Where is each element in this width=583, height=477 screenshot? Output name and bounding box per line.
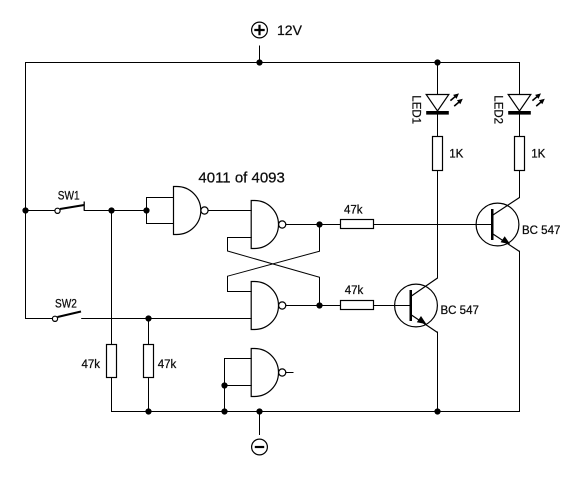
- resistor R5 47k: [107, 345, 117, 378]
- resistor R6 47k: [144, 345, 154, 378]
- NAND gate C (lower latch): [251, 282, 286, 330]
- wire gate D tie to rail: [224, 386, 226, 412]
- wire ground symbol stub: [259, 412, 261, 435]
- wire gate B output cross-couple: [228, 225, 320, 292]
- wire LED1 cathode to R: [437, 115, 439, 137]
- wire gate D output stub: [286, 372, 293, 374]
- NAND gate B (upper latch): [251, 201, 286, 249]
- wire gate B output row: [286, 224, 340, 226]
- junction gate B output: [316, 221, 322, 227]
- junction gate D tie: [221, 382, 227, 388]
- junction SW1/gate A tie: [143, 207, 149, 213]
- svg-text:SW1: SW1: [58, 190, 80, 202]
- NAND gate A (inverter-wired): [174, 187, 209, 235]
- wire R6 to ground rail: [148, 378, 150, 412]
- svg-text:BC 547: BC 547: [522, 225, 560, 237]
- junction left rail/SW1: [22, 207, 28, 213]
- wire gate A output to gate B: [208, 210, 251, 212]
- wire bottom ground rail: [112, 411, 520, 413]
- wire SW1 left: [26, 210, 55, 212]
- ground symbol: [252, 439, 268, 455]
- junction gate D/ground rail: [221, 408, 227, 414]
- wire R3 to Q2 base: [374, 224, 491, 226]
- wire Q1 emitter to rail: [437, 332, 439, 412]
- wire SW2 left: [26, 318, 53, 320]
- resistor R3 47k: [341, 220, 374, 229]
- wire LED1 branch drop: [437, 63, 439, 95]
- wire R4 to Q1 base: [374, 305, 410, 307]
- svg-text:4011 of 4093: 4011 of 4093: [198, 170, 284, 187]
- resistor R4 47k: [341, 301, 374, 310]
- LED1: [426, 93, 463, 114]
- svg-text:47k: 47k: [344, 205, 363, 217]
- wire left rail: [25, 63, 27, 319]
- junction supply/top rail: [256, 59, 262, 65]
- wire SW2 to gate C input: [82, 318, 252, 320]
- wire SW1 to gate A inputs: [84, 210, 146, 212]
- wire top supply rail: [26, 62, 520, 64]
- wire R to Q1 collector: [437, 171, 439, 279]
- junction gate C output: [316, 302, 322, 308]
- transistor Q2 BC547 (upper): [476, 198, 519, 252]
- junction LED1 branch/top rail: [434, 59, 440, 65]
- LED2: [508, 93, 545, 114]
- wire R to Q2 collector: [519, 171, 521, 198]
- wire LED2 cathode to R: [519, 115, 521, 137]
- wire R5 to ground rail: [111, 378, 113, 412]
- junction SW1/R5 tap: [108, 207, 114, 213]
- junction SW2/R6 tap: [145, 315, 151, 321]
- resistor R2 1K: [515, 137, 525, 171]
- resistor R1 1K: [433, 137, 443, 171]
- wire gate B input 2 cross-couple: [228, 238, 320, 306]
- wire gate C output row: [286, 305, 340, 307]
- NAND gate D (unused): [251, 349, 286, 397]
- svg-text:1K: 1K: [449, 149, 463, 161]
- junction Q1 emitter/rail: [434, 408, 440, 414]
- svg-text:12V: 12V: [277, 22, 303, 38]
- wire gate A input tie: [147, 198, 174, 224]
- svg-text:47k: 47k: [158, 359, 177, 371]
- wire 12V stub: [259, 46, 261, 63]
- svg-text:LED1: LED1: [410, 95, 422, 124]
- svg-text:1K: 1K: [531, 149, 545, 161]
- switch SW1: [55, 202, 84, 214]
- svg-text:47k: 47k: [82, 359, 101, 371]
- wire Q2 emitter to rail: [519, 251, 521, 411]
- transistor Q1 BC547 (lower): [395, 278, 438, 333]
- svg-text:BC 547: BC 547: [441, 305, 479, 317]
- svg-text:47k: 47k: [345, 285, 364, 297]
- svg-text:SW2: SW2: [55, 299, 77, 311]
- wire SW1 node to R5: [111, 211, 113, 345]
- wire LED2 branch drop: [519, 63, 521, 95]
- switch SW2: [52, 312, 81, 322]
- junction R6/ground rail: [145, 408, 151, 414]
- power symbol +12V: [252, 22, 268, 38]
- junction ground symbol/rail: [256, 408, 262, 414]
- wire SW2 node to R6: [148, 319, 150, 345]
- svg-text:LED2: LED2: [492, 95, 504, 124]
- wire gate D input tie: [225, 359, 252, 386]
